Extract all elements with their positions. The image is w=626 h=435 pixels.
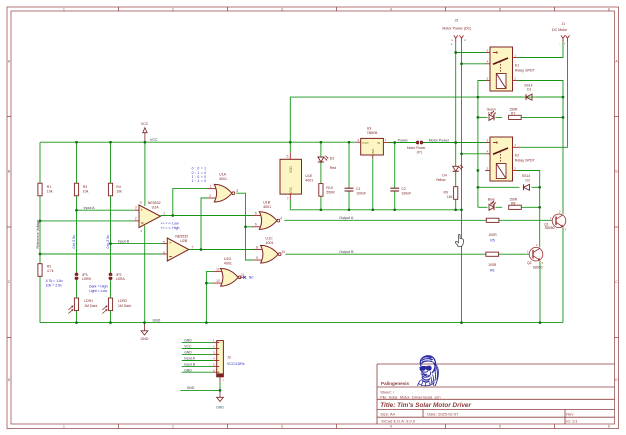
nor gate U1A pins: [207, 188, 216, 190]
svg-text:2: 2: [209, 194, 211, 198]
svg-text:5: 5: [255, 211, 257, 215]
resistor R5: [486, 218, 499, 222]
power symbol VCC: [144, 133, 146, 143]
svg-text:4001: 4001: [305, 179, 313, 183]
svg-text:0 to 2.5v: 0 to 2.5v: [72, 235, 76, 249]
svg-text:+: +: [451, 43, 453, 47]
power symbol GND under rail: [144, 323, 146, 331]
svg-text:+> = <- Low: +> = <- Low: [161, 221, 180, 225]
svg-text:DC Motor: DC Motor: [552, 28, 568, 32]
svg-text:4.7k: 4.7k: [47, 269, 54, 273]
svg-text:LDRB: LDRB: [82, 277, 92, 281]
svg-text:3: 3: [236, 189, 238, 193]
wire 0V return rail: [289, 142, 291, 152]
svg-text:KiCad E.D.A. 9.0.0: KiCad E.D.A. 9.0.0: [382, 418, 416, 423]
ic U3 pin 2 gnd: [372, 155, 374, 159]
svg-text:U3: U3: [367, 126, 372, 130]
photoresistor LDR2: [108, 298, 112, 311]
svg-text:J1: J1: [561, 22, 565, 26]
resistor R8: [509, 205, 522, 209]
wire U1A pin2 down to U2B out: [201, 198, 207, 250]
wire GND stub at J3: [181, 389, 221, 391]
resistor R2: [38, 264, 42, 277]
svg-text:Rev:: Rev:: [566, 412, 574, 417]
svg-text:S8050: S8050: [533, 266, 543, 270]
photoresistor LDR1: [74, 298, 78, 311]
svg-text:R6: R6: [490, 269, 494, 273]
wire D3 column: [320, 142, 322, 157]
wire reference to U2A pin2: [40, 220, 135, 222]
solder jumper JP2: [109, 273, 113, 277]
svg-text:VCC: VCC: [141, 122, 149, 126]
op-amp U2B: [167, 238, 189, 261]
svg-text:JP1: JP1: [417, 151, 423, 155]
svg-text:R1: R1: [47, 185, 52, 189]
svg-text:Motor Power: Motor Power: [407, 146, 427, 150]
wire J2 pin2 to K1 pin4: [462, 63, 486, 65]
svg-text:GND: GND: [371, 148, 375, 156]
svg-text:GND: GND: [152, 318, 160, 322]
wire R6 to Q2 base: [499, 253, 530, 255]
svg-text:Input B: Input B: [118, 239, 130, 243]
wire reference to U2B pin6: [40, 253, 163, 255]
svg-text:GND: GND: [184, 368, 192, 372]
svg-text:4: 4: [280, 216, 282, 220]
svg-text:550R: 550R: [326, 191, 335, 195]
led D3: [318, 157, 324, 162]
svg-text:C1: C1: [356, 187, 361, 191]
wire Output B: [286, 253, 486, 255]
led D5 green row: [478, 116, 488, 118]
svg-text:D1: D1: [527, 88, 531, 92]
connector J3 pin 6 GND: [182, 371, 214, 373]
solder jumper JP1: [416, 141, 420, 145]
nor gate U1B pins: [253, 215, 261, 217]
svg-text:NC: NC: [249, 276, 254, 280]
svg-text:-: -: [452, 38, 453, 42]
svg-text:Palingenesis: Palingenesis: [381, 381, 410, 386]
svg-text:File: Solar_Motor_Driver.kicad: File: Solar_Motor_Driver.kicad_sch: [380, 394, 440, 399]
svg-text:R5: R5: [490, 239, 494, 243]
capacitor C2: [390, 187, 399, 189]
wire VCC rail: [40, 141, 356, 143]
ic U3 pin 1 in: [383, 142, 388, 144]
svg-text:D4: D4: [442, 173, 446, 177]
svg-text:R4: R4: [116, 185, 121, 189]
op-amp U2B output wire to U1C pin8: [189, 249, 253, 251]
led D4 yellow: [455, 143, 457, 167]
svg-text:Relay SPDT: Relay SPDT: [515, 68, 536, 72]
relay K1 pins: [485, 52, 490, 54]
nor gate U1D pins: [214, 271, 223, 273]
svg-text:10: 10: [282, 250, 286, 254]
wire Q1 emitter to GND rail: [562, 227, 564, 322]
svg-text:Output A: Output A: [339, 216, 354, 220]
nor gate U1D: [221, 269, 239, 287]
svg-text:D5: D5: [488, 112, 492, 116]
svg-text:+< = <- High: +< = <- High: [161, 226, 180, 230]
svg-text:U2A: U2A: [152, 206, 160, 210]
wire J1 pin2 to K2 common: [520, 42, 568, 147]
resistor R3: [74, 183, 78, 196]
svg-text:Red: Red: [330, 166, 336, 170]
svg-text:10k: 10k: [116, 190, 122, 194]
resistor R4: [108, 183, 112, 196]
svg-text:100R: 100R: [488, 263, 497, 267]
capacitor C1: [345, 187, 354, 189]
relay K2 SPDT: [490, 137, 513, 181]
svg-text:VCC/LDRs: VCC/LDRs: [227, 362, 245, 366]
wire J1 pin1 to K1 common: [518, 42, 564, 58]
svg-text:VSS: VSS: [289, 187, 293, 193]
svg-text:2: 2: [135, 217, 137, 221]
ic U3 78M05 regulator: [361, 138, 384, 155]
svg-text:6: 6: [608, 7, 610, 11]
svg-text:VCC: VCC: [150, 138, 158, 142]
svg-text:2: 2: [172, 425, 174, 429]
connector J3 VCC LDRs: [217, 341, 224, 377]
svg-text:1M Dark: 1M Dark: [118, 304, 131, 308]
wire C2 column: [394, 143, 396, 189]
svg-text:5: 5: [499, 7, 501, 11]
svg-text:U1E: U1E: [305, 174, 313, 178]
svg-text:1: 1: [63, 425, 65, 429]
svg-text:3: 3: [281, 425, 283, 429]
svg-text:-: -: [559, 41, 560, 45]
wire Input B: [111, 243, 163, 245]
svg-text:U2B: U2B: [180, 239, 188, 243]
svg-text:LDR1: LDR1: [84, 299, 93, 303]
wire R4 column: [110, 142, 112, 183]
svg-text:Id: 1/1: Id: 1/1: [566, 418, 578, 423]
svg-text:S8050: S8050: [545, 226, 555, 230]
svg-text:1 : 1 = 0: 1 : 1 = 0: [192, 179, 207, 183]
svg-text:R7: R7: [511, 112, 515, 116]
svg-text:GND: GND: [187, 386, 195, 390]
svg-text:OUT: OUT: [362, 141, 369, 145]
wire C1 column: [348, 142, 350, 188]
wire VCC to D1 row feeder: [290, 97, 563, 142]
svg-text:NE5532: NE5532: [148, 201, 161, 205]
svg-text:VDD: VDD: [289, 165, 293, 172]
svg-text:Light = Low: Light = Low: [89, 289, 107, 293]
wire Input A: [77, 209, 135, 211]
svg-text:3: 3: [135, 206, 137, 210]
svg-text:Reference Voltage: Reference Voltage: [36, 220, 40, 249]
svg-text:U1B: U1B: [263, 201, 271, 205]
wire Q2 emitter to GND rail: [539, 261, 541, 323]
svg-text:14: 14: [285, 155, 289, 159]
svg-text:4001: 4001: [263, 205, 271, 209]
svg-text:4.7k = 1.6v: 4.7k = 1.6v: [46, 279, 63, 283]
svg-text:Size: A4: Size: A4: [380, 412, 395, 417]
svg-text:100nF: 100nF: [401, 191, 411, 195]
resistor R7: [509, 115, 522, 119]
svg-text:K1: K1: [515, 64, 519, 68]
svg-text:GND: GND: [184, 351, 192, 355]
svg-text:U1A: U1A: [219, 173, 227, 177]
svg-text:R2: R2: [47, 264, 52, 268]
wire U1B pin6 tap: [246, 226, 254, 228]
svg-text:4001: 4001: [266, 241, 274, 245]
wire J3 shield to GND: [219, 382, 221, 391]
svg-text:1: 1: [163, 211, 165, 215]
svg-text:5: 5: [499, 425, 501, 429]
svg-text:Output B: Output B: [339, 250, 354, 254]
svg-text:+: +: [564, 42, 566, 46]
wire U2A out up to U1A pin1: [173, 189, 207, 216]
company logo Palingenesis portrait sketch: [418, 356, 439, 386]
svg-text:NE5532: NE5532: [175, 234, 188, 238]
svg-text:4001: 4001: [219, 177, 227, 181]
resistor R10: [319, 184, 323, 197]
wire R3 column: [76, 142, 78, 183]
no-connect flag U1D output: [240, 276, 245, 278]
power symbol GND below J3: [219, 390, 221, 397]
op-amp U2A input pins: [135, 209, 140, 211]
ic U1E pin 14: [289, 152, 291, 159]
svg-text:LDR2: LDR2: [118, 299, 127, 303]
wire U1D inputs tied to GND rail: [206, 272, 213, 323]
svg-text:Title: Tim's Solar Motor Drive: Title: Tim's Solar Motor Driver: [380, 402, 471, 409]
wire K1 pin5 down column: [478, 81, 485, 208]
svg-text:100R: 100R: [489, 233, 498, 237]
wire K1 pin2 to coil column: [518, 81, 564, 214]
svg-text:IN: IN: [377, 141, 380, 145]
svg-text:Input A: Input A: [184, 357, 195, 361]
solder jumper JP3: [75, 273, 79, 277]
title block frame: [377, 364, 615, 424]
ic U1E 4001 power unit: [280, 159, 302, 194]
svg-text:4: 4: [390, 7, 392, 11]
frame row ticks and letters: [7, 60, 619, 383]
resistor R9: [455, 172, 457, 187]
svg-text:R8: R8: [511, 201, 515, 205]
op-amp U2B input pins: [163, 243, 168, 245]
svg-text:Relay SPDT: Relay SPDT: [515, 158, 536, 162]
svg-text:2: 2: [172, 7, 174, 11]
connector J3 pin 2 VCC: [182, 348, 214, 350]
svg-text:J3: J3: [227, 355, 231, 359]
svg-text:J2: J2: [455, 19, 459, 23]
relay K2 pins: [485, 142, 490, 144]
svg-text:Input A: Input A: [84, 206, 96, 210]
svg-text:13: 13: [216, 279, 220, 283]
svg-text:C2: C2: [401, 187, 406, 191]
svg-text:10k: 10k: [83, 190, 89, 194]
op-amp U2A: [139, 205, 161, 228]
svg-text:Dark = High: Dark = High: [89, 285, 108, 289]
wire U3 gnd to 0V rail: [372, 159, 374, 210]
resistor R1: [38, 183, 42, 196]
wire R5 to Q1 base: [499, 219, 552, 221]
svg-text:U1D: U1D: [224, 257, 232, 261]
svg-text:4001: 4001: [224, 262, 232, 266]
resistor R6: [486, 252, 499, 256]
ic U1E pin 7: [289, 194, 291, 200]
svg-text:LDRA: LDRA: [116, 277, 126, 281]
svg-text:R10: R10: [326, 186, 332, 190]
svg-text:6: 6: [255, 223, 257, 227]
ic U3 pin 3 out: [356, 141, 361, 143]
wire J2 pin1 column motor plus: [455, 42, 457, 143]
svg-text:0 to 2.5v: 0 to 2.5v: [106, 235, 110, 249]
connector J3 pin 7 shield: [219, 377, 221, 382]
svg-text:Input B: Input B: [184, 363, 195, 367]
svg-text:8: 8: [256, 245, 258, 249]
nor gate U1C: [261, 245, 279, 263]
svg-text:D6: D6: [490, 201, 494, 205]
svg-text:R3: R3: [83, 185, 88, 189]
svg-text:Yellow: Yellow: [436, 178, 446, 182]
nor gate U1C pins: [253, 249, 262, 251]
svg-text:7: 7: [192, 245, 194, 249]
svg-text:3: 3: [281, 7, 283, 11]
svg-text:Motor Power: Motor Power: [429, 138, 450, 142]
wire to K2 pin4: [462, 153, 486, 155]
wire J2 pin1 to K1 pin3: [456, 52, 485, 54]
transistor Q1 S8050: [552, 214, 566, 228]
svg-text:1M Dark: 1M Dark: [84, 304, 97, 308]
svg-text:4: 4: [390, 425, 392, 429]
relay K1 SPDT: [490, 47, 513, 91]
svg-text:Date: 2025-02-07: Date: 2025-02-07: [427, 412, 459, 417]
svg-text:10k: 10k: [47, 190, 53, 194]
svg-text:12: 12: [216, 267, 220, 271]
wire U1A output chain down: [236, 193, 253, 260]
svg-text:Q2: Q2: [527, 261, 532, 265]
transistor Q2 S8050: [529, 247, 543, 261]
svg-text:1: 1: [63, 7, 65, 11]
nor gate U1A: [214, 184, 232, 202]
wire VCC to U2A V+: [144, 142, 146, 206]
svg-text:Power: Power: [398, 138, 409, 142]
svg-text:D3: D3: [330, 157, 335, 161]
svg-text:9: 9: [256, 256, 258, 260]
wire motor power rail: [389, 142, 486, 144]
mouse cursor: [455, 234, 463, 246]
op-amp U2A output wire to U1B pin5: [161, 215, 253, 217]
svg-text:6: 6: [608, 425, 610, 429]
svg-text:1: 1: [210, 185, 212, 189]
svg-text:D2: D2: [526, 178, 530, 182]
led D6 blue row: [478, 206, 488, 208]
nor gate U1B: [259, 212, 277, 230]
connector J3 pin 5 Input B: [182, 365, 214, 367]
diode D1 SS14: [537, 96, 563, 98]
svg-text:GND: GND: [184, 339, 192, 343]
wire J2 pin2 column ground return: [461, 42, 463, 323]
connector J3 pin 4 Input A: [182, 360, 214, 362]
svg-text:10k = 2.5v: 10k = 2.5v: [46, 283, 62, 287]
svg-text:Motor Power (DC): Motor Power (DC): [442, 26, 471, 30]
wire U2A V- to GND rail: [144, 226, 146, 323]
wire R1 R2 column: [39, 142, 41, 183]
connector J3 pin 1 GND: [182, 342, 214, 344]
diode D2 SS14: [478, 186, 520, 188]
svg-text:GND: GND: [141, 337, 149, 341]
wire GND rail: [40, 322, 563, 324]
svg-text:1k5: 1k5: [447, 195, 453, 199]
svg-text:100nF: 100nF: [356, 191, 366, 195]
svg-text:VCC: VCC: [184, 345, 192, 349]
wire Output A: [284, 219, 486, 221]
svg-text:K2: K2: [515, 154, 519, 158]
wire K2 pin2 to Q2 collector column: [518, 171, 540, 248]
svg-text:GND: GND: [216, 406, 224, 410]
svg-text:U1C: U1C: [266, 236, 274, 240]
connector J3 pin 3 GND: [182, 353, 214, 355]
svg-text:78M05: 78M05: [367, 131, 378, 135]
